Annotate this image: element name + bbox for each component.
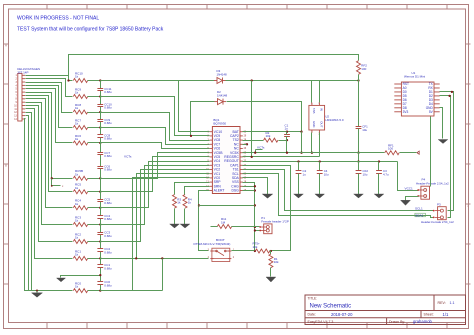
wire D3 rail drop to REGSRC bus [251,81,253,157]
wire J1 pin2 to RC9 [26,79,73,97]
junction alert row [254,204,256,206]
connector P1 Female header 1*2P [259,216,289,234]
junction CHG row [254,185,256,187]
wire R3 to ground [174,209,176,225]
svg-text:DSG: DSG [231,189,239,193]
wire C1 top lead [286,132,288,135]
capacitor CC10 [97,102,112,109]
resistor R11 1M [217,217,231,228]
wire C1 bottom lead [286,137,288,141]
wire RC5B to filter cap chain [88,178,101,180]
svg-text:TEST System that will be confi: TEST System that will be configured for … [17,27,164,33]
junction BAT row at drop [300,131,302,133]
svg-text:1u: 1u [303,172,307,176]
junction cap chain RC9 row [99,95,101,97]
wire P1 pin1 [255,226,260,228]
capacitor CC6 [97,165,112,172]
ground under C4 [315,194,325,198]
wire RC4 to filter cap chain [88,207,101,209]
wire RC5 node to IC pin VC5 [101,157,210,192]
IC BQ1 BQ76930 [206,118,247,193]
wire D2 cathode to BAT [227,102,302,132]
wire RC1 to filter cap chain [88,258,101,260]
wire P4 pin2 to ground [406,197,419,201]
wire VCTs stub [256,149,263,151]
wire U2 OUT down [319,133,321,157]
svg-text:1k: 1k [75,137,79,141]
svg-text:0.68u: 0.68u [104,154,112,158]
svg-text:1k: 1k [75,172,79,176]
resistor RC8 [73,103,87,114]
junction VC5X bus at BAT drop [300,152,302,154]
junction caps bus at C2 [297,160,299,162]
wire U1 D2 to P3 [440,96,451,218]
wire RC4 node to IC pin VC4 [101,162,210,208]
resistor RC2 [73,232,87,243]
wire SRP to R3 [175,183,210,195]
wire U1 5V down [430,117,432,187]
svg-text:TAB: TAB [312,108,316,113]
resistor RC6 [73,134,87,145]
junction stack top at RC10 row [67,79,69,81]
wire REGSRC bus [243,156,320,158]
wire RC6 node to IC pin VC6 [101,143,210,149]
ground G2 cell sense low [57,278,66,282]
svg-text:OUT: OUT [320,121,324,127]
junction D3 rail at RF2 [357,79,359,81]
wire RF2 column down [358,81,360,127]
capacitor CF2 10u [356,169,369,176]
wire J1 pin6 to RC5B [26,93,73,179]
capacitor CC9 [97,118,112,125]
capacitor CC2 [97,247,112,254]
junction ALERT at 205 row [198,204,200,206]
wire RC5 to filter cap chain [88,191,101,193]
capacitor CC4 [97,214,112,221]
svg-text:SCL1: SCL1 [415,207,423,211]
junction caps bus at C4 [319,160,321,162]
connector P4 Header-Female 2.54_1x2 [416,177,449,199]
capacitor CC7 [97,151,112,158]
wire VC0 net RC1 row to boot switch [101,258,209,260]
svg-text:10k: 10k [253,245,258,249]
wire RC2 to filter cap chain [88,241,101,243]
capacitor CC11 [97,87,112,94]
wire P1 pin2 [255,230,260,232]
wire RC0 to filter cap chain [88,290,101,292]
junction cap chain RC5 row [99,191,101,193]
junction caps bus at C3 [378,160,380,162]
junction BAT row at C1 [286,131,288,133]
ground under R4 [180,224,190,228]
net flag 5V at RF1 [417,151,419,154]
svg-text:1k: 1k [75,91,79,95]
wire U2 GND down [311,133,313,153]
svg-text:1.1: 1.1 [450,301,455,305]
capacitor CC1 [97,263,112,270]
resistor R4 1k [183,195,192,209]
svg-text:0.68u: 0.68u [104,250,112,254]
junction P1 pin2 at vertical [254,229,256,231]
resistor RC4 [73,199,87,210]
resistor R2 10k [264,131,278,142]
wire U1 D1 to P3 [440,92,454,211]
capacitor C3 4.7u [376,169,389,176]
wire caps bus to C3 [378,162,380,171]
svg-text:JST 14P: JST 14P [17,70,28,74]
wire caps bus to P4 VCC1 [398,162,419,191]
ground under R3 [170,224,180,228]
junction U2 GND at VC5X bus [311,152,313,154]
wire riser to RC0 row [162,259,164,291]
junction R75 R1 node [270,250,272,252]
wire caps bus to C4 [319,162,321,171]
svg-text:0.68u: 0.68u [104,234,112,238]
resistor RC7 [73,118,87,129]
wire RC2 node to IC pin VC2 [101,170,210,242]
resistor RF1 100 [385,143,399,154]
wire stub net flag [52,179,61,186]
wire SRN to R4 [185,187,210,195]
wire RC9 to filter cap chain [88,96,101,98]
wire boot switch to R75 [232,250,255,252]
svg-text:Date:: Date: [308,313,316,317]
wire U1 GND to ground [440,108,443,139]
wire J1 pin14 to ground net [25,119,29,291]
svg-text:Header-Female 2.54_1x2: Header-Female 2.54_1x2 [416,182,449,186]
wire REGOUT caps bus [243,161,398,163]
diode D3 1N4148 [214,69,227,83]
capacitor CC5 [97,198,112,205]
wire C2 to ground [298,174,300,195]
junction stub end [51,185,53,187]
capacitor CC8 [97,133,112,140]
junction U1 D1 wire [451,91,453,93]
svg-text:1N4148: 1N4148 [217,73,228,77]
switch SW1 BOOT DTSM-62N [194,238,235,262]
module U1 Wemos D1 Mini [394,71,439,116]
wire R4 to ground [184,209,186,225]
wire RF1 to net flag [400,152,417,154]
ground under R1 [266,277,276,282]
svg-text:VCTs: VCTs [257,145,265,149]
ground under CF2 [354,194,364,198]
wire stack top rail [69,55,359,81]
svg-text:DTSM-62N-S-V-T/R(SW43): DTSM-62N-S-V-T/R(SW43) [194,242,231,246]
wire ground net to RC0 [29,290,73,292]
svg-text:4.7u: 4.7u [383,172,389,176]
wire J1 pin3 to RC8 [26,83,73,113]
svg-text:WORK IN PROGRESS - NOT FINAL: WORK IN PROGRESS - NOT FINAL [17,16,99,22]
resistor RC3 [73,215,87,226]
junction VC5X bus at C1 drop [286,152,288,154]
svg-text:TITLE:: TITLE: [308,296,318,300]
wire NC stub [243,144,247,146]
junction VC9 wire to D2 [190,135,192,137]
wire RC7 node to IC pin VC7 [101,128,210,145]
svg-text:3V3: 3V3 [403,110,409,114]
svg-text:2018-07-20: 2018-07-20 [331,312,353,317]
wire BAT drop to VC5X bus [301,132,303,153]
resistor RC9 [73,87,87,98]
capacitor CF1 10u [356,125,369,132]
junction U1 D2 wire [448,95,450,97]
voltage regulator U2 LM340SX-5.0 [309,103,344,136]
svg-text:1k: 1k [75,122,79,126]
wire J1 pin10 to RC2 [26,106,73,242]
svg-text:1k: 1k [75,75,79,79]
net label SDA1 [415,213,426,217]
wire rail to U2 TAB [311,81,313,103]
wire stack top to D3 [101,80,215,82]
svg-text:VCTs: VCTs [124,154,132,158]
ground under P4 [401,200,411,205]
resistor RC5 [73,183,87,194]
svg-text:Wemos D1 Mini: Wemos D1 Mini [404,74,425,78]
wire VCTs stub drop [255,150,257,153]
capacitor C2 1u [296,169,307,176]
svg-text:0.68u: 0.68u [104,217,112,221]
svg-text:grahamob: grahamob [413,319,433,324]
wire SDA to ground [243,178,268,195]
wire J1 pin1 to RC10 [26,76,73,81]
junction CF1 at VC5X bus [357,152,359,154]
svg-text:0.68u: 0.68u [104,121,112,125]
wire VCTs node drop to VC5X bus [286,141,288,153]
wire C4 to ground [319,174,321,195]
wire rail to U2 IN [319,81,321,103]
junction CF2 at caps bus [357,160,359,162]
junction VC5X bus at VCTs stub [254,152,256,154]
junction RC5B fanout [51,177,53,179]
resistor RC0 [73,282,87,293]
wire RF2 to rail junction [358,75,360,81]
junction cap chain RC2 row [99,240,101,242]
svg-text:1k: 1k [75,285,79,289]
capacitor C4 10u [317,169,329,176]
wire VSS down [243,183,255,251]
svg-text:0.68u: 0.68u [104,201,112,205]
wire R75 right node [270,250,291,252]
resistor R1 10k [269,254,279,268]
svg-text:Header-Female 2.54_1x2: Header-Female 2.54_1x2 [421,220,454,224]
junction cap chain RC4 row [99,207,101,209]
wire RC10 node to IC pin VC10 [101,81,210,132]
junction D3 rail at REGSRC drop [251,79,253,81]
diode D2 1N4148 [215,90,228,104]
wire VC5X bus [243,152,385,154]
ground under VSS net [262,194,273,198]
resistor RF2 100 [357,61,368,75]
svg-text:1k: 1k [75,106,79,110]
junction CC1-CC0 ground tap [99,274,101,276]
svg-text:0.68u: 0.68u [104,137,112,141]
wire D2 anode from VC9 net [191,102,215,136]
svg-text:EasyEDA V4.7.3: EasyEDA V4.7.3 [308,320,334,324]
wire caps bus to C2 [298,162,300,171]
junction cap chain RC6 row [99,142,101,144]
junction boot node R75 left [254,250,256,252]
resistor R3 1k [173,195,182,209]
wire SCL SDA1 to P3 [243,174,434,218]
svg-text:0.68u: 0.68u [104,283,112,287]
wire CF1 column to caps bus [358,153,360,162]
svg-text:1k: 1k [75,253,79,257]
wire CHG join [243,186,255,188]
wire CAP1 to boot node [243,166,291,251]
resistor R75 10k [253,242,270,253]
svg-text:0.68u: 0.68u [104,266,112,270]
wire TS1 SCL1 to P3 [243,170,434,211]
junction cap chain RC0 row [99,289,101,291]
wire caps bus to CF2 [358,162,360,171]
capacitor C1 1u [284,123,290,136]
wire RC1 node to IC pin VC1 [101,174,210,259]
title block [305,295,466,325]
wire J1 pin11 to RC1 [26,109,73,259]
svg-text:10u: 10u [324,172,329,176]
wire J1 pin13 to ground net [26,116,29,291]
wire ALERT left [199,191,210,251]
wire TS2 to R2 [243,140,264,142]
wire RC8 node to IC pin VC8 [101,113,210,141]
wire RC3 node to IC pin VC3 [101,166,210,225]
svg-text:1k: 1k [75,219,79,223]
junction cap chain RC8 row [99,111,101,113]
wire J1 pin4 to RC7 [26,86,73,128]
junction DSG row [254,189,256,191]
svg-text:Drawn By:: Drawn By: [389,320,405,324]
connector J1 CELLVOLTAGES JST 14P [14,67,40,121]
svg-text:P3: P3 [437,203,441,207]
svg-text:10k: 10k [266,134,271,138]
wire J1 pin7 to RC5 [26,96,73,192]
svg-text:REV:: REV: [438,301,446,305]
wire RC0 row extension [101,290,163,292]
svg-text:1k: 1k [188,201,192,205]
wire CF1 to bus [358,129,360,153]
capacitor CC3 [97,231,112,238]
svg-text:1k: 1k [75,202,79,206]
svg-text:10k: 10k [274,260,279,264]
svg-text:0.68u: 0.68u [104,168,112,172]
svg-text:LM340SX-5.0: LM340SX-5.0 [325,118,344,122]
capacitor CC0 [97,280,112,287]
wire J1 pin5 to RC6 [26,89,73,143]
junction VC0 net at RC1 vertical [135,257,137,259]
wire J1 pin9 to RC3 [26,103,73,225]
svg-text:ALERT: ALERT [214,189,225,193]
wire R11 right to P1 vertical [232,226,255,228]
svg-text:0.68u: 0.68u [104,106,112,110]
svg-text:VCC1: VCC1 [405,186,414,190]
wire capacitor chain [100,81,102,291]
wire RC6 to filter cap chain [88,142,101,144]
wire C3 to ground [378,174,380,195]
svg-text:2: 2 [467,204,469,208]
wire RC10 to filter cap chain [88,80,101,82]
svg-text:GND: GND [312,121,316,127]
junction VC0 net riser [161,257,163,259]
junction cap chain RC5B row [99,177,101,179]
svg-text:100: 100 [388,147,393,151]
resistor RC1 [73,249,87,260]
wire J1 pin8 to RC4 [26,99,73,208]
ground under C2 [294,194,304,198]
svg-text:1k: 1k [75,186,79,190]
svg-text:Female header 1*2P: Female header 1*2P [261,219,289,223]
ground G1 battery minus [32,291,43,297]
wire RC3 to filter cap chain [88,224,101,226]
svg-text:1u: 1u [285,127,289,131]
ground under C3 [374,194,384,198]
svg-text:1M: 1M [221,220,226,224]
resistor RC10 [73,71,87,82]
junction cap chain RC10 row [99,79,101,81]
svg-text:1k: 1k [177,201,181,205]
svg-text:1/1: 1/1 [443,312,449,317]
wire CF2 to ground [358,174,360,195]
wire D3 cathode rail [226,80,359,82]
ground under U1 GND [438,140,448,144]
connector P3 Header-Female 2.54_1x2 [421,203,454,224]
junction R2 C1 node [286,139,288,141]
junction cap chain RC3 row [99,223,101,225]
junction RC0 ground net [36,289,38,291]
svg-text:SDA1: SDA1 [415,213,423,217]
svg-text:IN: IN [320,108,324,111]
svg-text:1k: 1k [75,236,79,240]
svg-text:B: B [5,164,7,168]
wire ALERT row to DSG vertical [199,205,255,207]
wire RC8 to filter cap chain [88,112,101,114]
wire DSG join [243,190,255,192]
wire RC9 node to IC pin VC9 [101,97,210,136]
wire RC7 to filter cap chain [88,127,101,129]
svg-text:Sheet:: Sheet: [424,313,434,317]
wire R2 to C1 bottom [279,140,287,142]
svg-text:10u: 10u [362,128,367,132]
svg-text:BQ76930: BQ76930 [213,122,226,126]
svg-text:0.68u: 0.68u [104,90,112,94]
wire J1 pin12 to RC0 [26,113,73,291]
wire RC5B node to IC pin VC5B [101,153,210,179]
svg-text:1N4148: 1N4148 [217,94,228,98]
svg-text:10u: 10u [363,172,368,176]
wire node to R1 [270,251,272,255]
wire R1 to ground [270,268,272,277]
svg-text:New Schematic: New Schematic [310,304,352,310]
junction cap chain RC7 row [99,126,101,128]
junction P1 pin1 [254,226,256,228]
junction REGSRC at D3 drop [251,156,253,158]
wire CC1-CC0 node to ground [61,276,101,278]
resistor RC5B [73,169,87,180]
svg-text:100: 100 [361,67,366,71]
wire RC0 node to IC pin VC0 [101,178,210,291]
wire R11 left [211,226,218,228]
junction cap chain RC1 row [99,257,101,259]
junction NC stub [246,143,248,145]
